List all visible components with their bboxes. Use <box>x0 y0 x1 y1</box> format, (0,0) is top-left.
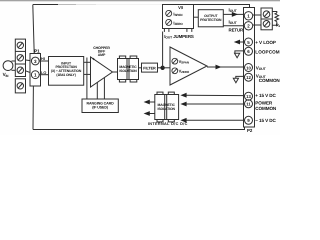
svg-text:+ 15 V DC: + 15 V DC <box>255 93 276 98</box>
wire P2 pin5 loop supply <box>239 41 244 43</box>
wire P1 pin3 HI to input protection <box>39 60 48 62</box>
svg-text:POWER: POWER <box>255 100 273 105</box>
svg-text:VSPAN: VSPAN <box>179 59 189 65</box>
screw terminal 4 <box>17 83 23 89</box>
VI converter box <box>163 5 194 29</box>
P1 pin 1 <box>31 71 39 79</box>
wire isolated supply A <box>147 101 155 103</box>
svg-text:10: 10 <box>246 65 251 70</box>
wire P2 pin 2 return to output protection <box>223 25 243 27</box>
svg-text:(1B41 ONLY): (1B41 ONLY) <box>56 73 75 77</box>
op-amp output amplifier <box>170 47 207 85</box>
wire isolated supply B <box>147 113 155 115</box>
ground output common <box>233 78 238 83</box>
potentiometer V SPAN <box>172 58 178 64</box>
svg-text:ISOLATION: ISOLATION <box>119 69 137 73</box>
P2 pin 6 <box>245 47 253 55</box>
screw terminal load 2 <box>263 21 270 28</box>
svg-text:ISPAN: ISPAN <box>173 11 183 17</box>
svg-text:COMMON: COMMON <box>259 78 280 83</box>
transformer magnetic isolator signal <box>118 56 139 82</box>
wire screw3 to P1 pin1 <box>26 71 32 73</box>
scan edge artifact <box>0 0 280 1</box>
arrow into dc/dc from pin9 <box>180 118 186 123</box>
transformer magnetic isolator power <box>155 92 179 122</box>
wire VIN to terminal 3 <box>12 69 16 71</box>
screw terminal 2 <box>17 55 23 61</box>
wire input protection to chopper amp HI <box>84 61 91 63</box>
ranging card box <box>82 99 118 113</box>
svg-text:IOUT: IOUT <box>229 8 238 14</box>
wire P2 pin12 to output ground <box>236 76 245 78</box>
P2 pin 9 <box>245 116 253 124</box>
wire output amp to P2 pin 10 <box>207 66 244 68</box>
wire filter to node <box>158 67 163 69</box>
arrow output amp direction <box>216 65 222 70</box>
jumper pins right pair <box>187 29 192 32</box>
P2 pin 10 <box>245 64 253 72</box>
op-amp chopper diff amp <box>91 57 113 87</box>
svg-text:P2: P2 <box>247 128 253 133</box>
svg-text:− 15 V DC: − 15 V DC <box>255 118 276 123</box>
svg-text:IZERO: IZERO <box>173 20 183 26</box>
wire input protection to chopper amp LO <box>84 73 91 75</box>
svg-text:FILTER: FILTER <box>143 67 156 71</box>
svg-text:ISOLATION: ISOLATION <box>158 107 176 111</box>
P2 pin 2 <box>244 22 252 30</box>
wire node to output amp <box>163 67 170 69</box>
svg-text:(IF USED): (IF USED) <box>92 106 109 110</box>
svg-text:11: 11 <box>246 102 251 107</box>
source VIN <box>3 61 13 71</box>
wire P1 pin1 LO to input protection <box>39 74 48 76</box>
arrow into pin5 <box>234 40 240 45</box>
wire module top rail <box>33 4 58 6</box>
svg-text:P1: P1 <box>34 48 40 53</box>
svg-text:IOUT JUMPERS: IOUT JUMPERS <box>164 34 194 40</box>
svg-text:13: 13 <box>246 94 251 99</box>
input screw terminal block <box>15 39 25 76</box>
wire module left rail upper <box>33 5 34 54</box>
filter box <box>142 63 158 72</box>
arrow IOUT direction <box>232 12 238 17</box>
svg-text:RL: RL <box>276 23 280 29</box>
svg-text:+ V LOOP: + V LOOP <box>255 40 276 45</box>
svg-text:LOOPCOM: LOOPCOM <box>255 49 280 54</box>
svg-text:PROTECTION: PROTECTION <box>200 18 222 22</box>
potentiometer I SPAN <box>166 10 172 16</box>
P2 pin 1 <box>244 12 252 20</box>
wire P2 pin1 to load terminal 1 <box>253 14 261 16</box>
P2 pin 11 <box>245 100 253 108</box>
svg-text:3: 3 <box>34 59 37 64</box>
wire vertical to ranging card <box>86 58 88 100</box>
arrow isolated supply A <box>144 100 150 105</box>
wire P2 pin9 to dc/dc <box>185 119 245 121</box>
svg-text:VIN: VIN <box>3 72 10 78</box>
arrow into dc/dc from pin11 <box>180 102 186 107</box>
wire P2 pin13 to dc/dc <box>185 94 245 96</box>
screw terminal 1 <box>17 42 23 48</box>
wire module left rail lower <box>32 86 34 130</box>
wire VIN to terminal 2 <box>12 60 16 62</box>
potentiometer I ZERO <box>166 19 172 25</box>
P1 pin 3 <box>31 57 39 65</box>
svg-text:VZERO: VZERO <box>179 69 190 75</box>
svg-text:1: 1 <box>34 73 37 78</box>
screw terminal 3 <box>17 67 23 73</box>
jumper pins left pair <box>164 29 169 32</box>
svg-text:V/I: V/I <box>178 5 183 10</box>
node junction <box>160 66 164 70</box>
svg-text:AMP: AMP <box>98 53 106 57</box>
wire output protection to P2 pin 1 <box>223 13 243 15</box>
connector P2 <box>244 8 255 128</box>
ground loop common <box>235 53 240 58</box>
load screw terminal block <box>261 8 272 30</box>
wire P2 pin11 to dc/dc <box>185 103 245 105</box>
potentiometer V ZERO <box>172 68 178 74</box>
wire module bottom rail <box>33 127 245 130</box>
svg-text:COMMON: COMMON <box>255 106 277 111</box>
P2 pin 12 <box>245 73 253 81</box>
svg-text:LO: LO <box>41 71 46 75</box>
arrow into dc/dc from pin13 <box>180 93 186 98</box>
screw terminal load 1 <box>263 11 270 18</box>
svg-text:IOUT: IOUT <box>229 20 238 26</box>
wire chopper amp to ranging card A <box>96 82 98 99</box>
wire VI converter to output protection <box>194 16 199 18</box>
svg-text:VOUT: VOUT <box>256 65 267 71</box>
input protection box <box>49 57 84 86</box>
wire node to VI converter jumpers <box>162 32 164 68</box>
input screw terminal block lower <box>15 79 25 93</box>
svg-text:HI: HI <box>41 57 45 61</box>
arrow isolated supply B <box>144 111 150 116</box>
wire P2 pin2 to load terminal 2 <box>253 24 261 26</box>
svg-text:12: 12 <box>246 75 251 80</box>
wire magnetic isolator to filter <box>139 67 142 69</box>
wire screw2 to P1 pin3 <box>26 59 32 62</box>
P2 pin 13 <box>245 92 253 100</box>
output protection box <box>198 10 223 27</box>
resistor RL <box>272 12 278 26</box>
wire chopper amp to ranging card B <box>103 78 105 99</box>
P2 pin 5 <box>245 38 253 46</box>
svg-text:INTERNAL D/C D/C: INTERNAL D/C D/C <box>148 122 188 126</box>
wire chopper amp to magnetic isolator <box>113 71 118 73</box>
connector P1 <box>30 54 41 87</box>
wire P2 pin6 to loop ground <box>235 51 245 53</box>
svg-text:+: + <box>92 56 95 61</box>
